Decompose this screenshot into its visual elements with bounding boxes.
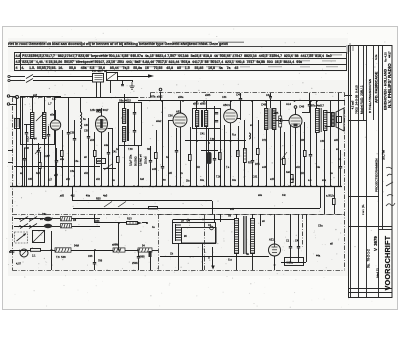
cap C8 (175, 151, 178, 152)
wire (240, 99, 242, 120)
table row3 smudge (40, 66, 338, 67)
node (202, 219, 204, 221)
cap extra left 2 (23, 159, 26, 160)
title block frame inner edge (350, 46, 352, 298)
wire (266, 129, 268, 186)
wire (345, 95, 352, 97)
title block row sep d (349, 288, 393, 290)
trim cap b (47, 135, 50, 136)
tube V4 grid (291, 118, 301, 124)
input terminal R (8, 79, 10, 81)
terminal marks (347, 43, 353, 54)
svg-text:30,7M: 30,7M (382, 150, 386, 160)
tube V1 cathode lead (101, 132, 103, 186)
node (274, 264, 276, 266)
wire (125, 250, 138, 252)
title block col line 3 (378, 46, 380, 298)
wire (306, 214, 308, 262)
tuning cap frame (21, 97, 55, 145)
tube V2 grid lead (168, 120, 173, 122)
svg-text:4167: 4167 (44, 154, 50, 158)
svg-text:R71: R71 (262, 139, 267, 142)
wire (270, 98, 272, 108)
wire (94, 214, 96, 223)
wire (300, 125, 302, 186)
tube V5 anodes (272, 244, 278, 253)
svg-text:4a5: 4a5 (36, 172, 41, 175)
resistor R13h ticks (130, 222, 136, 225)
main ground bus (10, 186, 342, 188)
title block col line 3b (382, 46, 384, 230)
wire (266, 101, 268, 108)
wire (56, 148, 58, 160)
resistor R13h (127, 222, 138, 225)
chassis boundary top left (13, 97, 151, 99)
switch contact 1a (20, 217, 28, 222)
wire (122, 80, 124, 84)
pot circle (20, 249, 28, 257)
wire (160, 256, 269, 258)
cap C40 (87, 137, 90, 138)
wire (224, 125, 226, 186)
cathode res R12 (304, 151, 307, 157)
wire (162, 167, 164, 186)
node (187, 219, 189, 221)
svg-text:R53: R53 (95, 220, 100, 223)
wire (68, 134, 70, 186)
svg-text:C34: C34 (320, 140, 325, 143)
IF2 shield box (193, 109, 221, 129)
pickup box A hatch (95, 76, 103, 80)
wire (173, 219, 234, 221)
svg-text:a44: a44 (152, 168, 157, 171)
svg-text:S6a 4615: S6a 4615 (119, 99, 131, 103)
svg-text:PROJECTIEGRAMMEN: PROJECTIEGRAMMEN (374, 158, 378, 192)
wire (80, 97, 82, 112)
resistor R14 h (31, 249, 41, 252)
svg-text:44a: 44a (316, 255, 321, 258)
IF1 sec core (128, 109, 130, 141)
svg-text:C48: C48 (261, 103, 267, 107)
arrow BOC (19, 250, 23, 252)
tube V1 grid lines (97, 120, 107, 129)
wire (316, 132, 318, 186)
cap C46 (308, 105, 311, 106)
IF1 trimmer cap 1 (133, 113, 136, 114)
IF2 core (201, 110, 203, 127)
resistor R4 (155, 153, 158, 159)
earth terminal (7, 103, 9, 105)
node (196, 140, 198, 142)
svg-text:a4a: a4a (322, 179, 327, 182)
tube V2 grid (175, 117, 186, 123)
switch contact 1b (29, 217, 37, 222)
cap C4 (73, 139, 76, 140)
tube V3 anode (230, 101, 232, 109)
grid resistor R11 (283, 159, 286, 165)
right chain part (333, 199, 336, 205)
tube V3 grid (226, 113, 236, 119)
resistor R8 hatch (244, 150, 247, 159)
tube V2 anode (180, 101, 182, 113)
scan tone wash table (8, 38, 348, 72)
wire (118, 80, 133, 82)
wire (290, 214, 292, 246)
wire (32, 97, 34, 112)
bus joint10 (203, 100, 205, 102)
cap C6 (149, 161, 152, 162)
resistor extra left (39, 163, 42, 169)
scattered value labels (20, 94, 342, 229)
wire (316, 101, 318, 108)
cluster link wire (118, 76, 149, 78)
svg-text:C46: C46 (299, 105, 305, 109)
svg-text:T.6 548: T.6 548 (56, 255, 66, 259)
IF2 caps (215, 113, 218, 114)
svg-text:4.2 aa5: 4.2 aa5 (350, 100, 354, 110)
wire (94, 156, 96, 186)
wire (44, 138, 46, 186)
tube V0 envelope (50, 120, 60, 130)
svg-text:R75: R75 (255, 163, 260, 166)
wire (258, 120, 260, 148)
svg-text:VOORSCHRIFT: VOORSCHRIFT (383, 235, 392, 290)
osc coil L3 (80, 112, 82, 129)
svg-text:C.81: C.81 (252, 176, 258, 179)
crossed box diagonal (33, 230, 45, 242)
wire (40, 168, 42, 186)
wire (340, 150, 342, 166)
small box left (15, 119, 20, 129)
cap C10 (251, 161, 254, 162)
arrow small (138, 222, 142, 225)
wire bus left (55, 97, 138, 99)
wire (124, 141, 126, 186)
svg-text:a52: a52 (66, 178, 71, 181)
dot end (146, 222, 148, 224)
svg-text:a15: a15 (270, 178, 275, 181)
bypass cap C12 (309, 155, 312, 156)
input lead 2 (10, 80, 25, 82)
svg-text:AFD. FABRICAGE: AFD. FABRICAGE (375, 71, 379, 103)
svg-text:C4a: C4a (74, 160, 79, 163)
scan speckle noise (6, 29, 389, 308)
section divider vertical (51, 231, 53, 270)
svg-text:C36: C36 (168, 115, 173, 118)
wire (236, 253, 238, 270)
wire (150, 146, 152, 160)
wire (94, 132, 96, 150)
wire (72, 186, 74, 201)
wire (260, 214, 262, 226)
wire (62, 130, 64, 150)
filter cap C15 (289, 247, 292, 248)
wire (220, 159, 222, 186)
cap C45 (239, 99, 242, 100)
svg-text:4417: 4417 (387, 51, 391, 58)
svg-text:T.36: T.36 (210, 138, 215, 141)
svg-text:AK2: AK2 (96, 110, 102, 114)
input switch slant 2 (26, 79, 33, 83)
switch contact 2b (29, 224, 37, 229)
svg-text:a0a: a0a (258, 194, 263, 197)
wire (124, 94, 126, 109)
svg-text:R.a: R.a (232, 134, 237, 137)
wire (309, 93, 311, 104)
cluster ground (129, 82, 134, 89)
AVC slant (104, 164, 112, 170)
tube V4 envelope (289, 115, 302, 128)
table row line 3 (14, 64, 347, 66)
wire (282, 120, 289, 122)
wire (238, 156, 240, 186)
input lead 1 (10, 76, 25, 78)
node (29, 218, 31, 220)
wire (24, 159, 26, 186)
title block row sep mid (349, 196, 379, 198)
pickup box B (107, 73, 118, 81)
IF3 coil a (265, 109, 268, 130)
tube V2 envelope (173, 113, 187, 127)
node (61, 166, 63, 168)
svg-text:a.05,5c: a.05,5c (326, 195, 335, 198)
switch contact 2a (20, 224, 28, 229)
wire (138, 252, 140, 257)
cluster drop 1 (96, 82, 98, 97)
wire (298, 247, 300, 262)
svg-text:L.7: L.7 (48, 102, 52, 106)
link (24, 124, 32, 126)
svg-text:blad 21: blad 21 (375, 268, 379, 278)
chassis boundary right (344, 93, 346, 271)
wire (304, 156, 306, 186)
wire (176, 128, 178, 150)
wire (274, 256, 276, 270)
tube V5 envelope (269, 244, 281, 256)
top coil blob (249, 133, 251, 139)
IF2 secondary coil (205, 111, 208, 127)
tube V1 anode lead (101, 108, 103, 116)
wire (214, 159, 216, 186)
table row1 smudge (22, 54, 342, 56)
svg-text:4,07: 4,07 (16, 262, 21, 265)
tube V0 cathode lead (55, 130, 57, 186)
svg-text:V 3679: V 3679 (373, 236, 378, 251)
tube V4 cathode (295, 128, 297, 187)
horizontal link (185, 140, 246, 142)
svg-text:7602 24-5-58 9.415: 7602 24-5-58 9.415 (354, 85, 358, 114)
wire (150, 257, 152, 270)
horizontal link2 (201, 150, 218, 152)
svg-text:R25: R25 (274, 112, 279, 115)
selector inner box (182, 228, 217, 244)
bus joint (161, 100, 163, 102)
tube V4 dark blob (294, 124, 298, 127)
wire (103, 168, 116, 170)
svg-text:44a: 44a (316, 166, 321, 169)
wire (298, 214, 300, 246)
wire (214, 106, 216, 158)
wire (138, 258, 140, 270)
svg-text:G: G (208, 257, 210, 260)
wire (320, 186, 322, 208)
wire (274, 129, 276, 186)
B+ bus (138, 100, 345, 102)
wire (196, 127, 198, 186)
wire (270, 93, 272, 97)
table column sep (20, 52, 22, 70)
fuse blob 2 (44, 224, 52, 228)
cap C9 (213, 159, 216, 160)
wire (284, 132, 286, 158)
svg-text:40a: 40a (232, 179, 237, 182)
svg-text:a98M: a98M (112, 244, 118, 247)
svg-text:No 4.25: No 4.25 (384, 52, 388, 62)
hatched resistor 2 (113, 248, 125, 252)
wire (132, 80, 134, 82)
svg-text:P.U. 4217 a8: P.U. 4217 a8 (92, 70, 108, 73)
resistor 470 (291, 175, 294, 183)
cap C7 (161, 167, 164, 168)
wire (284, 164, 286, 186)
wire (134, 113, 136, 125)
hatched resistor R25 (279, 116, 282, 127)
left tick a (8, 150, 13, 152)
table frame bottom line (14, 70, 347, 72)
wire (38, 151, 40, 186)
svg-text:786: 786 (98, 259, 103, 262)
svg-text:a560 a585: a560 a585 (193, 103, 206, 106)
resistor R5 (189, 155, 192, 161)
wire (156, 130, 158, 152)
wire (168, 120, 170, 186)
svg-text:a56: a56 (300, 139, 305, 142)
svg-text:50Ta a0a2: 50Ta a0a2 (150, 96, 163, 99)
wire (72, 218, 101, 220)
svg-text:4a6: 4a6 (140, 178, 145, 181)
hatched resistor 54 (138, 248, 152, 252)
wire (220, 214, 222, 222)
wire (32, 138, 34, 186)
svg-text:a05: a05 (168, 172, 173, 175)
wire (160, 92, 162, 101)
svg-text:587a 4a017: 587a 4a017 (310, 104, 325, 107)
wire (340, 167, 342, 186)
wire (325, 112, 333, 114)
wire (118, 146, 120, 156)
tube V3 cathode (230, 123, 232, 186)
wire (16, 99, 18, 187)
heater line (73, 208, 320, 210)
wire (330, 101, 332, 186)
PT secondary (251, 219, 255, 254)
title block row sep e (349, 292, 393, 294)
wire (40, 152, 42, 162)
resistor R13 h (149, 207, 158, 209)
wire (280, 101, 282, 116)
IF3 core lines (270, 108, 272, 129)
svg-text:a05 4a2: a05 4a2 40a 4a5 (60, 194, 108, 197)
wire (176, 151, 178, 186)
wire (310, 156, 312, 186)
svg-text:4.2a: 4.2a (374, 54, 378, 60)
wire (334, 204, 336, 214)
volume wiper arrow (281, 152, 287, 160)
wire (26, 124, 28, 133)
svg-text:a13: a13 (33, 94, 38, 97)
wire (88, 118, 90, 136)
svg-text:a17: a17 (54, 174, 59, 177)
wire (214, 214, 216, 222)
svg-text:C44: C44 (222, 96, 227, 99)
chassis boundary bottom (13, 270, 345, 272)
chassis boundary left (12, 98, 14, 271)
wire (238, 126, 240, 150)
wire (52, 226, 60, 228)
blob part (149, 251, 152, 257)
filter cap C16 (297, 247, 300, 248)
earth lead (10, 104, 17, 106)
wire (206, 101, 208, 110)
wire (112, 129, 114, 187)
PT core (244, 216, 247, 254)
svg-text:R55: R55 (96, 198, 101, 201)
bus joint5 (265, 100, 267, 102)
wire (208, 164, 210, 186)
selector outer box (173, 223, 216, 244)
aerial terminal 2 (7, 95, 9, 97)
wire (274, 214, 276, 244)
title block frame (349, 46, 393, 298)
wire (24, 148, 26, 158)
svg-text:4a0: 4a0 (286, 171, 291, 174)
switch slant a (104, 202, 112, 208)
wire (244, 162, 246, 186)
tube V1 side electrode (108, 128, 114, 130)
svg-text:9a. 78-2-1-2: 9a. 78-2-1-2 (366, 249, 370, 268)
IF2 primary coil (196, 111, 199, 127)
switch slant b (118, 202, 126, 208)
svg-text:ABC1: ABC1 (223, 103, 231, 107)
svg-text:a52: a52 (84, 172, 89, 175)
wire (309, 105, 311, 112)
IF1 shield box (119, 103, 142, 146)
node (21, 166, 23, 168)
fuse blob 1 (44, 217, 52, 221)
svg-text:0,5 MΩ a4: 0,5 MΩ a4 (140, 154, 143, 166)
switch dashed box (15, 232, 28, 243)
wire (44, 97, 46, 112)
wire (212, 201, 214, 214)
selector pin rail (175, 224, 177, 241)
hand script (386, 167, 395, 206)
earth arrow (211, 266, 215, 270)
wire (94, 250, 96, 262)
bus joint2 (182, 100, 184, 102)
tube V0 anode lead (55, 110, 57, 120)
hatched fuse res 1 (61, 217, 72, 221)
title block col line 1 (358, 46, 360, 298)
wire (142, 222, 147, 224)
wire (281, 262, 306, 264)
svg-text:EINDHOVEN - HOLLAND: EINDHOVEN - HOLLAND (384, 69, 388, 111)
IF1 core (127, 109, 129, 141)
wire (338, 93, 340, 186)
wire (276, 120, 281, 122)
title block row sep a (349, 120, 367, 122)
pot wiper (21, 250, 27, 256)
node (19, 225, 21, 227)
